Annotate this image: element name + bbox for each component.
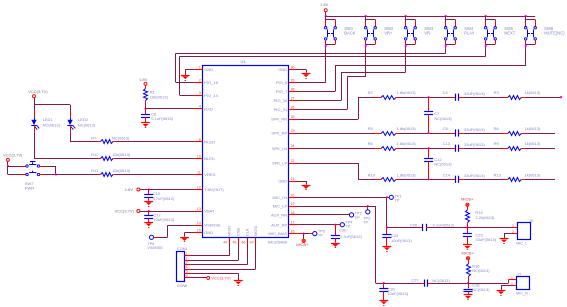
test point TP5 <box>313 230 325 238</box>
U1 pin 13 VBAT <box>194 207 215 214</box>
svg-text:1k(0613): 1k(0613) <box>525 172 541 177</box>
svg-text:3: 3 <box>199 91 201 95</box>
resistor R12 10k <box>91 152 130 161</box>
pushbutton switch SW5 NEXT <box>485 15 516 48</box>
U1 pin 20 MIC_LN <box>273 193 298 200</box>
svg-text:1k(0613): 1k(0613) <box>525 90 541 95</box>
svg-text:1.8k(0613): 1.8k(0613) <box>397 126 417 131</box>
svg-text:44: 44 <box>223 241 227 245</box>
capacitor C30 10uF <box>379 283 408 300</box>
wire CON1 pin6 to VCC <box>190 277 207 279</box>
power MICB+ (R16) <box>462 251 475 260</box>
svg-text:13: 13 <box>197 207 201 211</box>
svg-text:NC(0613): NC(0613) <box>432 278 450 283</box>
svg-text:19: 19 <box>291 202 295 206</box>
svg-text:11: 11 <box>197 171 201 175</box>
capacitor C28 NC <box>464 282 491 294</box>
svg-text:23: 23 <box>291 129 295 133</box>
svg-text:MUTE(NC): MUTE(NC) <box>544 30 565 35</box>
power 1.8V (C10) <box>125 187 140 192</box>
svg-text:5: 5 <box>186 270 188 274</box>
U1 pin 24 SPK_LN <box>272 144 297 151</box>
svg-text:15: 15 <box>197 229 201 233</box>
wire VCC to SW7 contacts <box>7 161 26 174</box>
U1 pin 30 GND <box>278 66 297 73</box>
wire 1.8V to U1 pin12 <box>140 188 194 190</box>
wire U1 pin21 to ground <box>297 181 306 185</box>
svg-text:R3: R3 <box>494 90 500 95</box>
svg-text:MICB+: MICB+ <box>461 197 474 202</box>
wire SW1 to PIO_6 pin29 <box>297 48 326 82</box>
ground at U1 pin15 <box>180 238 189 242</box>
svg-text:GND: GND <box>204 67 213 72</box>
capacitor C20 2.2uF <box>331 225 363 243</box>
svg-text:NC(0613): NC(0613) <box>434 116 452 121</box>
wire U1 pin22 SPK_LP to filter row4 <box>297 163 358 179</box>
wire SW2 to PIO_31 pin26 <box>297 48 366 109</box>
ground at U1 pin1 <box>181 76 190 81</box>
svg-text:MICB+: MICB+ <box>462 251 475 256</box>
U1 pin 15 GND <box>194 229 213 236</box>
power MICB+ (R14) <box>461 197 474 207</box>
svg-text:TP: TP <box>363 220 368 224</box>
power VCC(3.7V) at CON1 <box>207 276 232 281</box>
svg-text:R6: R6 <box>494 126 500 131</box>
wire CON1 pin2 to CSB <box>190 244 238 261</box>
U1 pin 22 SPK_LP <box>272 159 297 166</box>
pushbutton switch SW4 PLAY <box>445 15 475 48</box>
capacitor C23 33uF <box>463 227 497 244</box>
capacitor C27 NC (series) <box>411 278 469 287</box>
svg-text:10uF(0613): 10uF(0613) <box>387 291 408 296</box>
svg-text:2: 2 <box>199 78 201 82</box>
svg-text:1: 1 <box>186 252 188 256</box>
svg-text:VSENSE: VSENSE <box>204 223 221 228</box>
pushbutton switch SW1 BACK <box>325 15 356 48</box>
svg-text:BACK: BACK <box>344 30 355 35</box>
capacitor C24 10uF <box>382 227 412 246</box>
capacitor C12 NC (shunt row3-row4) <box>424 148 452 179</box>
U1 pin 23 SPK_RP <box>271 129 297 136</box>
svg-text:VR-: VR- <box>424 30 432 35</box>
svg-text:R7: R7 <box>91 135 97 140</box>
svg-text:C14: C14 <box>443 172 451 177</box>
U1 pin 11 VREG <box>194 171 215 178</box>
svg-text:TP2: TP2 <box>355 211 362 215</box>
svg-text:2: 2 <box>186 256 188 260</box>
wire LED2 to R7 <box>70 132 97 142</box>
svg-text:R9: R9 <box>494 141 500 146</box>
resistor R16 NC <box>467 260 491 283</box>
capacitor C7 NC (shunt row1-row2) <box>424 97 452 133</box>
wire LED1 to R12 <box>34 132 98 158</box>
svg-text:PIO_6: PIO_6 <box>276 80 288 85</box>
U1 pin 25 SPK_RN <box>271 115 297 122</box>
filter row4 R10 C14 R13 (SPK_LP) <box>358 172 555 183</box>
svg-text:PLAY: PLAY <box>464 30 474 35</box>
svg-text:R10: R10 <box>368 172 376 177</box>
wire R1 to U1 pin4 RXD <box>144 104 194 110</box>
wire J7 pin2 to ground <box>501 286 516 290</box>
capacitor C10 4.7uF <box>144 190 175 201</box>
U1 pin 10 BLED <box>194 154 215 161</box>
svg-text:4.7uF(0612): 4.7uF(0612) <box>153 196 175 201</box>
svg-text:C13: C13 <box>443 141 451 146</box>
svg-text:1k(0613): 1k(0613) <box>525 126 541 131</box>
svg-text:C26: C26 <box>410 222 418 227</box>
svg-text:CLK: CLK <box>245 228 250 236</box>
svg-text:SPK_LP: SPK_LP <box>272 161 287 166</box>
svg-text:PWR: PWR <box>25 185 34 190</box>
svg-text:NC(0613): NC(0613) <box>112 135 130 140</box>
svg-text:J6: J6 <box>529 219 533 223</box>
wire U1 pin16 MIC_BIAS to TP5 <box>297 233 313 235</box>
CON1 pin 6 <box>184 274 190 278</box>
LED LED1 NC <box>31 117 60 132</box>
svg-text:17: 17 <box>291 221 295 225</box>
ground at C10 <box>144 202 153 207</box>
ground at U1 pin21 <box>302 186 311 190</box>
svg-text:C20: C20 <box>339 228 347 233</box>
pushbutton switch SW7 PWR <box>25 162 40 191</box>
U1 pin 47 MOSI <box>250 226 258 245</box>
svg-text:CSB: CSB <box>236 228 241 237</box>
svg-text:VR+: VR+ <box>384 30 393 35</box>
wire VCC to LED1 LED2 <box>34 98 71 118</box>
svg-text:6: 6 <box>186 274 188 278</box>
svg-text:29: 29 <box>291 78 295 82</box>
capacitor C26 0.1uF (series) <box>387 222 469 231</box>
wire R12 to U1 pin10 BLED <box>116 158 194 160</box>
resistor R1 10k <box>144 85 169 104</box>
connector J7 MIC_R <box>511 272 530 295</box>
wire CON1 pin4 to MOSI <box>190 244 255 270</box>
svg-text:MISO: MISO <box>226 226 231 236</box>
svg-text:PIO_7: PIO_7 <box>276 89 288 94</box>
ground at C17 <box>144 223 153 228</box>
wire U1 pin18 AUX_RN to TP2 <box>297 214 349 216</box>
svg-text:MIC_R: MIC_R <box>516 291 528 295</box>
wire J6 pin2 to ground <box>504 234 517 239</box>
svg-text:GND: GND <box>278 179 287 184</box>
svg-text:PIO_30: PIO_30 <box>274 98 288 103</box>
svg-text:MOSI: MOSI <box>253 226 258 236</box>
svg-text:3: 3 <box>186 261 188 265</box>
test point TP3 <box>363 206 370 224</box>
svg-text:NC(0613): NC(0613) <box>434 162 452 167</box>
CON1 pin 3 <box>184 261 190 265</box>
svg-text:33uF(0613): 33uF(0613) <box>475 237 496 242</box>
U1 pin 3 PIO_14 <box>194 91 218 98</box>
svg-text:1: 1 <box>511 276 513 280</box>
wire U1 pin1 to ground <box>185 70 194 75</box>
svg-text:C8: C8 <box>443 126 449 131</box>
svg-text:VSENSE: VSENSE <box>147 246 163 250</box>
filter row3 R8 C13 R9 (SPK_LN) <box>297 141 555 152</box>
wire CON1 pin3 to CLK <box>190 244 247 265</box>
svg-text:CON6: CON6 <box>177 284 188 288</box>
U1 pin 26 PIO_31 <box>274 106 297 113</box>
pushbutton switch SW3 VR- <box>405 15 434 48</box>
resistor R11 10k <box>91 168 130 177</box>
svg-text:VCC(3.7V): VCC(3.7V) <box>115 208 135 213</box>
wire U1 pin25 SPK_RN to filter row1 <box>297 97 358 119</box>
svg-text:LED2: LED2 <box>78 117 89 122</box>
wire U1 pin20 MIC_LN to TP1 <box>297 196 389 198</box>
filter row1 R2 C4 R3 (SPK_RN) <box>358 90 561 101</box>
svg-text:10k(0613): 10k(0613) <box>150 94 169 99</box>
wire C27 row to connector J7 <box>468 280 516 284</box>
svg-text:33uF(0613): 33uF(0613) <box>464 91 485 96</box>
svg-text:TP: TP <box>318 234 323 238</box>
svg-text:33uF(0613): 33uF(0613) <box>464 127 485 132</box>
svg-text:PIO_14: PIO_14 <box>204 93 218 98</box>
svg-text:2.2uF(0612): 2.2uF(0612) <box>340 234 362 239</box>
svg-text:10k(0613): 10k(0613) <box>112 152 131 157</box>
svg-text:RXD: RXD <box>204 106 213 111</box>
U1 pin 16 MIC_BIAS <box>269 230 298 237</box>
svg-text:VREG: VREG <box>204 172 215 177</box>
capacitor C17 10uF <box>144 211 175 222</box>
capacitor C6 0.1uF <box>141 109 174 123</box>
wire MIC_LN down to C26 row <box>386 197 388 228</box>
connector CON1 CON6 <box>177 247 188 288</box>
wire C26 row to connector J6 <box>467 227 517 229</box>
ground at J6 pin2 <box>500 239 509 244</box>
U1 pin 14 VSENSE <box>194 221 221 228</box>
CON1 pin 2 <box>184 256 190 260</box>
U1 pin 2 PIO_15 <box>194 78 218 85</box>
svg-text:NC(0613): NC(0613) <box>78 123 96 128</box>
U1 pin 17 AUX_RP <box>271 221 297 228</box>
svg-text:30: 30 <box>291 66 295 70</box>
U1 pin 28 PIO_7 <box>276 88 297 95</box>
U1 pin 21 GND <box>278 177 297 184</box>
svg-text:1k(0613): 1k(0613) <box>525 141 541 146</box>
svg-text:VCC(3.7V): VCC(3.7V) <box>3 152 23 157</box>
svg-text:BLED: BLED <box>204 156 215 161</box>
svg-text:AUX_RN: AUX_RN <box>271 213 287 218</box>
svg-text:NC(0613): NC(0613) <box>43 123 61 128</box>
power 1.8V (switch bus) <box>320 2 329 16</box>
wire CON1 pin1 to MISO <box>190 244 229 256</box>
U1 pin 45 CSB <box>233 228 241 245</box>
wire R11 to U1 pin11 VREG <box>116 174 194 176</box>
svg-text:1.8V: 1.8V <box>139 77 148 82</box>
svg-text:R13: R13 <box>494 172 502 177</box>
svg-text:MICB+: MICB+ <box>296 242 309 247</box>
svg-text:14: 14 <box>197 221 201 225</box>
U1 pin 19 MIC_LP <box>273 202 297 209</box>
svg-text:GND: GND <box>278 67 287 72</box>
svg-text:45: 45 <box>233 241 237 245</box>
svg-text:TP: TP <box>395 199 400 203</box>
svg-text:CON1: CON1 <box>177 247 188 251</box>
svg-text:AUX_RP: AUX_RP <box>271 222 287 227</box>
CON1 pin 5 <box>184 270 190 274</box>
ground at C6 <box>141 123 150 128</box>
svg-text:MIC_BIAS: MIC_BIAS <box>269 231 288 236</box>
svg-text:U1: U1 <box>241 59 247 64</box>
svg-text:VCC(3.7V): VCC(3.7V) <box>28 89 48 94</box>
svg-text:PIO_15: PIO_15 <box>204 80 218 85</box>
ground at C30 <box>379 301 388 306</box>
svg-text:1: 1 <box>512 223 514 227</box>
wire TP6 to U1 pin14 <box>154 225 195 237</box>
CON1 pin 4 <box>184 265 190 269</box>
svg-text:24: 24 <box>291 144 295 148</box>
ground at C28 <box>464 295 473 300</box>
svg-text:10uF(0613): 10uF(0613) <box>153 217 174 222</box>
svg-text:8: 8 <box>199 138 201 142</box>
U1 pin 8 RLED <box>194 138 215 145</box>
U1 pin 29 PIO_6 <box>276 78 297 85</box>
svg-text:22: 22 <box>291 159 295 163</box>
svg-text:18: 18 <box>291 211 295 215</box>
svg-text:MIC_LN: MIC_LN <box>273 195 288 200</box>
svg-text:SPK_RN: SPK_RN <box>271 117 287 122</box>
svg-text:28: 28 <box>291 88 295 92</box>
power VCC(3.7V) (LED supply) <box>28 89 48 98</box>
test point TP4 <box>340 221 352 229</box>
svg-text:C4: C4 <box>443 90 449 95</box>
svg-text:VBAT: VBAT <box>204 209 215 214</box>
svg-text:12: 12 <box>197 186 201 190</box>
svg-text:RLED: RLED <box>204 140 215 145</box>
IC U1 body <box>203 59 289 244</box>
svg-text:33uF(0613): 33uF(0613) <box>464 173 485 178</box>
svg-text:NEXT: NEXT <box>504 30 515 35</box>
power VCC(3.7V) (C17) <box>115 208 140 213</box>
svg-text:25: 25 <box>291 115 295 119</box>
svg-text:1.8k(0613): 1.8k(0613) <box>397 141 417 146</box>
wire SW5 to PIO_14 pin3 <box>180 48 486 95</box>
wire U1 pin15 to ground <box>185 233 195 237</box>
svg-text:16: 16 <box>291 230 295 234</box>
U1 pin 46 CLK <box>241 228 249 245</box>
svg-text:4: 4 <box>186 265 188 269</box>
ground at C23 <box>463 245 472 250</box>
svg-text:PIO_31: PIO_31 <box>274 107 288 112</box>
wire MIC_LP row to C27 row <box>376 282 422 284</box>
svg-text:0.1uF(0612): 0.1uF(0612) <box>433 223 455 228</box>
svg-text:R12: R12 <box>91 152 99 157</box>
wire R7 to U1 pin8 RLED <box>116 141 194 143</box>
svg-text:47: 47 <box>250 241 254 245</box>
svg-text:SPK_RP: SPK_RP <box>271 131 287 136</box>
U1 pin 12 1.8V(OUT) <box>194 186 224 193</box>
wire CON1 pin5 to ground <box>190 274 238 281</box>
wire U1 pin19 MIC_LP <box>297 205 376 283</box>
svg-text:C27: C27 <box>411 278 419 283</box>
test point TP2 <box>349 211 361 220</box>
CON1 pin 1 <box>184 252 190 256</box>
wire SW3 to PIO_30 pin27 <box>297 48 406 100</box>
wire U1 pin30 to ground <box>297 70 306 73</box>
svg-text:GND: GND <box>204 230 213 235</box>
svg-text:TP: TP <box>355 216 360 220</box>
U1 pin 44 MISO <box>223 226 231 245</box>
svg-text:4: 4 <box>199 105 201 109</box>
ground at J7 pin2 <box>497 291 506 296</box>
filter row2 R5 C8 R6 (SPK_RP) <box>297 126 555 137</box>
U1 pin 27 PIO_30 <box>274 97 297 104</box>
test point TP6 VSENSE <box>147 235 163 250</box>
svg-text:NC(0613): NC(0613) <box>472 268 490 273</box>
svg-text:1.8k(0613): 1.8k(0613) <box>397 90 417 95</box>
svg-text:1: 1 <box>199 66 201 70</box>
svg-text:R11: R11 <box>91 168 99 173</box>
svg-text:NC(0613): NC(0613) <box>472 287 490 292</box>
LED LED2 NC <box>67 117 95 132</box>
svg-text:BK3254B6: BK3254B6 <box>268 239 288 244</box>
wire SW4 to PIO_15 pin2 <box>176 48 446 82</box>
ground at C24 <box>383 247 392 252</box>
ground at C20 <box>331 244 340 248</box>
ground at U1 pin30 <box>302 74 311 79</box>
svg-text:VCC(3.7V): VCC(3.7V) <box>211 276 231 281</box>
svg-text:MIC_LP: MIC_LP <box>273 204 288 209</box>
ground at CON1 pin5 <box>234 281 243 286</box>
svg-text:46: 46 <box>241 241 245 245</box>
svg-text:10: 10 <box>197 154 201 158</box>
svg-text:2.2k(0613): 2.2k(0613) <box>475 215 495 220</box>
svg-text:21: 21 <box>291 177 295 181</box>
U1 pin 4 RXD <box>194 105 213 112</box>
svg-text:20: 20 <box>291 193 295 197</box>
power MICB+ at U1 pin16 <box>296 234 309 248</box>
wire U1 pin17 AUX_RP to TP4 <box>297 224 340 226</box>
svg-text:26: 26 <box>291 106 295 110</box>
resistor R7 NC <box>91 135 130 143</box>
U1 pin 1 GND <box>194 66 213 73</box>
wire VCC to U1 pin13 VBAT <box>140 210 194 212</box>
wire switch power bus <box>326 16 536 18</box>
power VCC(3.7V) (SW7) <box>3 152 23 161</box>
U1 pin 18 AUX_RN <box>271 211 297 218</box>
svg-text:R5: R5 <box>368 126 374 131</box>
svg-text:1.8V: 1.8V <box>125 187 134 192</box>
svg-text:10k(0613): 10k(0613) <box>112 168 131 173</box>
wire SW6 to PIO_7 pin28 <box>297 48 526 91</box>
svg-text:J7: J7 <box>517 272 521 276</box>
svg-text:1.8V: 1.8V <box>320 2 329 7</box>
svg-text:MIC_L: MIC_L <box>516 242 527 246</box>
svg-text:33uF(0613): 33uF(0613) <box>464 142 485 147</box>
svg-text:LED1: LED1 <box>43 117 54 122</box>
svg-text:1.8k(0613): 1.8k(0613) <box>397 172 417 177</box>
svg-text:10uF(0613): 10uF(0613) <box>391 238 412 243</box>
svg-text:SPK_LN: SPK_LN <box>272 146 287 151</box>
node SPK_R output <box>560 96 562 98</box>
pushbutton switch SW2 VR+ <box>365 15 394 48</box>
svg-text:1.8V(OUT): 1.8V(OUT) <box>204 187 224 192</box>
svg-text:27: 27 <box>291 97 295 101</box>
connector J6 MIC_L <box>512 219 533 245</box>
svg-text:R8: R8 <box>368 141 374 146</box>
resistor R14 2.2k <box>466 206 496 227</box>
power 1.8V (R1 pullup) <box>139 77 148 86</box>
test point TP1 <box>389 195 401 203</box>
svg-text:R2: R2 <box>368 90 374 95</box>
pushbutton switch SW6 MUTE(NC) <box>525 15 566 48</box>
svg-text:0.1uF(0613): 0.1uF(0613) <box>151 116 173 121</box>
wire SW7 to R11 <box>40 166 98 176</box>
